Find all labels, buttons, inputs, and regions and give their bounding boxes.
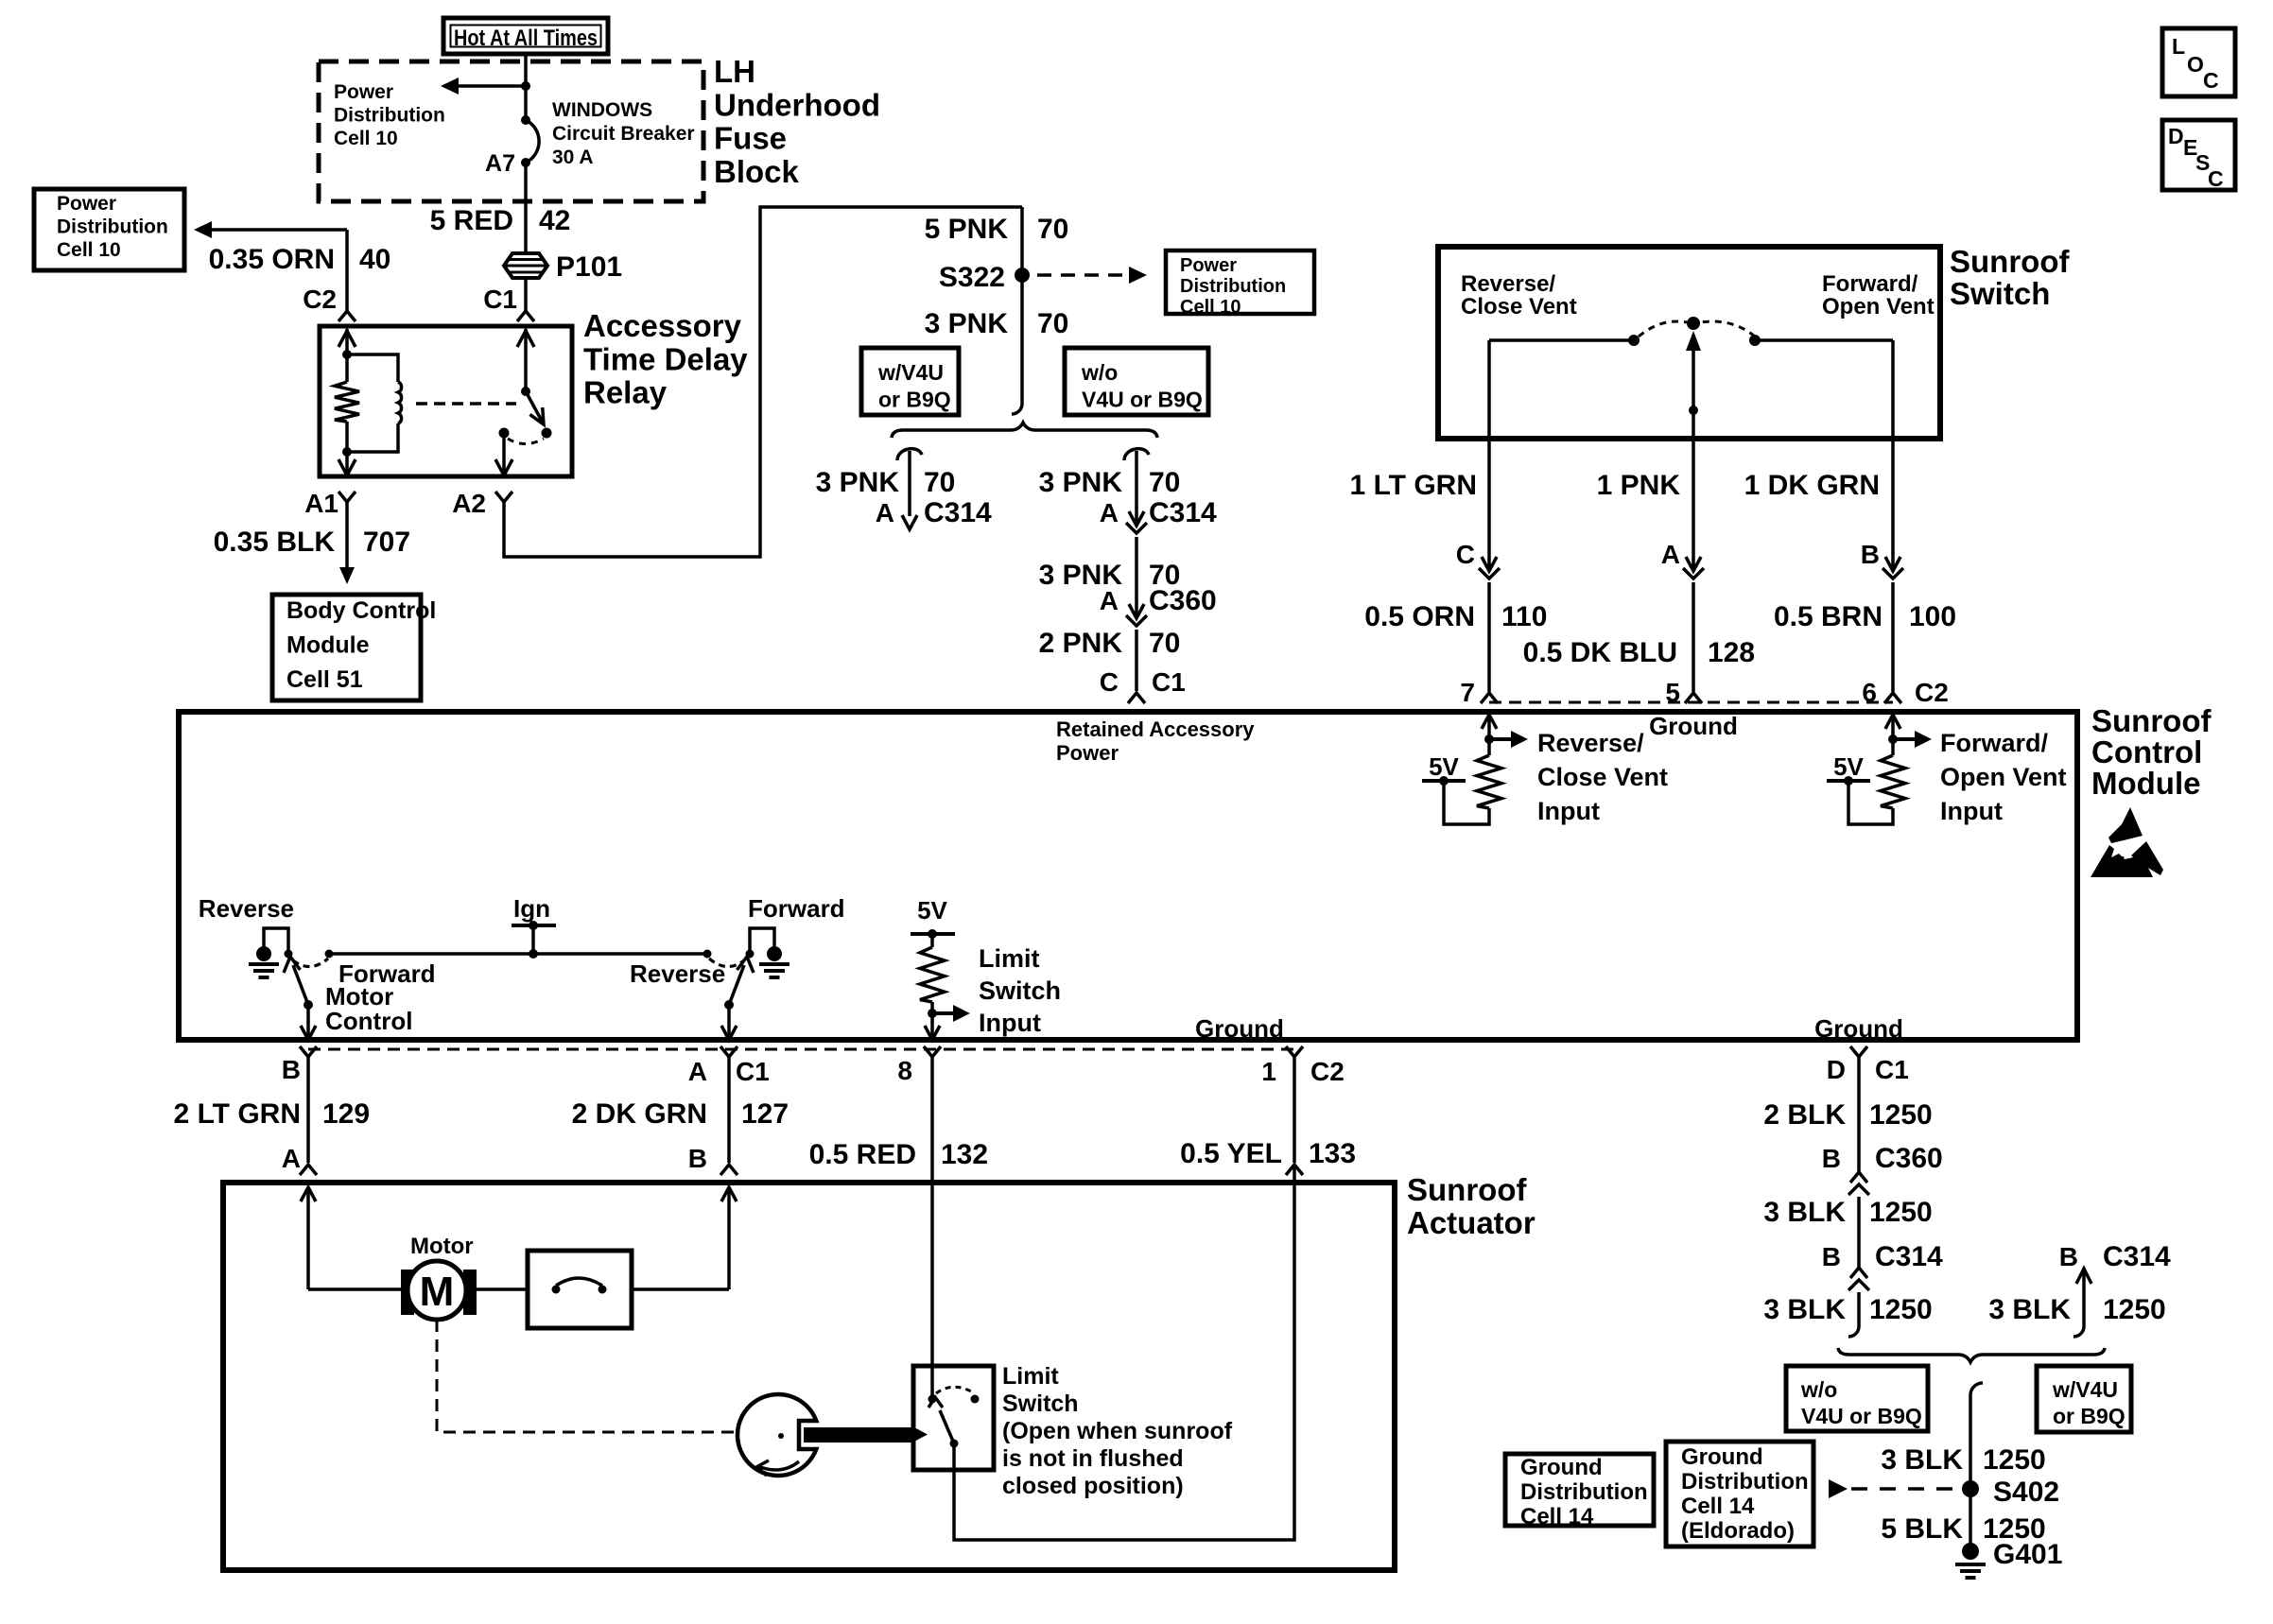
wire right motor control out: [727, 1005, 731, 1038]
right driver contact: [746, 950, 755, 959]
clutch contacts: [552, 1286, 561, 1294]
splice S402: [1962, 1480, 1979, 1497]
callout box Ground Distribution Cell 14: [1505, 1454, 1654, 1526]
LH Underhood Fuse Block (dashed outline): [319, 61, 703, 201]
dashed arrow to Power Distribution: [1037, 273, 1123, 277]
svg-text:70: 70: [924, 467, 955, 498]
left driver throw arc (dashed): [293, 959, 328, 967]
svg-text:(Eldorado): (Eldorado): [1681, 1518, 1795, 1544]
svg-text:C2: C2: [1310, 1057, 1345, 1086]
svg-text:Close Vent: Close Vent: [1537, 763, 1668, 791]
wire limit switch return: [954, 1165, 1294, 1540]
wire 3 PNK 70 branch (w/o): [1124, 449, 1149, 460]
svg-text:1 LT GRN: 1 LT GRN: [1350, 470, 1477, 501]
callout box w/V4U or B9Q (bottom): [2037, 1366, 2131, 1432]
left driver pivot: [304, 1000, 313, 1010]
node limit switch input: [930, 1002, 934, 1013]
wire 0.5 ORN 110: [1487, 582, 1491, 692]
svg-text:A: A: [1100, 498, 1119, 527]
switch left contact: [1628, 335, 1640, 346]
wire arrow to Power Distribution: [458, 84, 526, 88]
dashed mechanical link (motor to cam): [437, 1320, 734, 1432]
pin A2: [495, 492, 512, 502]
relay switch moving contact: [542, 428, 552, 439]
svg-text:Ground: Ground: [1520, 1455, 1603, 1480]
ground merge brace: [1838, 1348, 2105, 1362]
left driver contact: [285, 950, 293, 959]
svg-text:C1: C1: [736, 1057, 770, 1086]
svg-text:Relay: Relay: [583, 375, 668, 410]
svg-text:3 BLK: 3 BLK: [1881, 1444, 1963, 1476]
svg-text:2 LT GRN: 2 LT GRN: [174, 1098, 301, 1130]
svg-text:3 PNK: 3 PNK: [925, 308, 1009, 339]
svg-text:1250: 1250: [1869, 1294, 1933, 1325]
node coil bottom: [342, 447, 352, 457]
wire 2 PNK 70: [1135, 630, 1138, 691]
5V source (reverse input): [1422, 779, 1466, 783]
signal arrow Forward/Open Vent Input: [1893, 737, 1915, 741]
wire 2 LT GRN 129: [306, 1057, 310, 1163]
5V source (forward input): [1827, 779, 1870, 783]
component box Sunroof Control Module: [179, 712, 2077, 1040]
svg-text:w/V4U: w/V4U: [877, 360, 944, 385]
wire switch common to pin A: [1692, 410, 1695, 436]
svg-text:Distribution: Distribution: [334, 105, 445, 127]
svg-text:Ground: Ground: [1681, 1444, 1763, 1470]
svg-text:128: 128: [1708, 637, 1755, 668]
svg-text:5 RED: 5 RED: [430, 205, 513, 236]
resistor forward input pull-up: [1881, 755, 1905, 808]
svg-text:C2: C2: [303, 285, 337, 314]
wire merge to S402: [1970, 1383, 1983, 1394]
svg-text:or B9Q: or B9Q: [2053, 1404, 2126, 1428]
svg-text:Time Delay: Time Delay: [583, 341, 748, 376]
svg-text:Block: Block: [714, 154, 800, 189]
svg-text:1 DK GRN: 1 DK GRN: [1744, 470, 1880, 501]
svg-text:Retained Accessory: Retained Accessory: [1056, 717, 1255, 741]
svg-text:3 PNK: 3 PNK: [816, 467, 900, 498]
svg-text:is not in flushed: is not in flushed: [1002, 1445, 1184, 1472]
svg-text:V4U or B9Q: V4U or B9Q: [1082, 388, 1203, 412]
relay box Accessory Time Delay Relay: [320, 326, 572, 476]
svg-text:Motor: Motor: [410, 1234, 474, 1259]
svg-text:0.5 YEL: 0.5 YEL: [1180, 1138, 1282, 1169]
svg-text:Reverse: Reverse: [199, 894, 294, 923]
svg-text:Body Control: Body Control: [286, 597, 436, 624]
wire resistor to A1: [345, 422, 349, 452]
wire motor to clutch: [477, 1287, 528, 1291]
svg-text:Forward/: Forward/: [1822, 271, 1918, 297]
svg-text:w/o: w/o: [1081, 360, 1118, 385]
svg-text:C360: C360: [1875, 1143, 1943, 1174]
actuator A entry arrow: [301, 1187, 316, 1201]
wire P101 to relay C1: [524, 278, 528, 311]
left driver ground: [256, 946, 271, 961]
svg-text:Distribution: Distribution: [1681, 1469, 1809, 1494]
limit switch left contact: [928, 1395, 937, 1404]
relay resistor: [335, 382, 359, 422]
limit switch box: [913, 1366, 994, 1470]
svg-text:133: 133: [1309, 1138, 1356, 1169]
relay coil: [347, 354, 398, 382]
switch common arm arrow: [1692, 335, 1695, 410]
svg-text:0.5 DK BLU: 0.5 DK BLU: [1523, 637, 1677, 668]
svg-text:or B9Q: or B9Q: [878, 388, 951, 412]
svg-text:(Open when sunroof: (Open when sunroof: [1002, 1418, 1233, 1444]
svg-text:132: 132: [941, 1139, 988, 1170]
pin A / C1 (module): [720, 1046, 737, 1057]
relay switch arm: [526, 391, 544, 424]
wire breaker to P101: [524, 163, 528, 253]
pin 1 / C2 (module): [1286, 1046, 1303, 1057]
svg-text:Reverse/: Reverse/: [1461, 271, 1555, 297]
right driver throw arc (dashed): [709, 959, 744, 967]
svg-text:B: B: [282, 1055, 301, 1084]
svg-text:Sunroof: Sunroof: [1407, 1172, 1527, 1207]
svg-text:Ground: Ground: [1195, 1014, 1284, 1043]
svg-text:100: 100: [1909, 601, 1956, 632]
wire switch left contact: [1489, 338, 1634, 342]
pin (actuator limit return): [1286, 1165, 1303, 1175]
svg-text:A: A: [282, 1144, 301, 1173]
svg-text:30 A: 30 A: [552, 147, 594, 168]
svg-text:127: 127: [741, 1098, 789, 1130]
wire contact to A2: [502, 433, 506, 474]
svg-text:S322: S322: [939, 262, 1005, 293]
relay coil branch entry arrow: [338, 331, 356, 347]
wire 0.35 ORN 40: [194, 221, 212, 238]
svg-text:0.5 RED: 0.5 RED: [809, 1139, 916, 1170]
right driver pivot: [724, 1000, 734, 1010]
svg-text:0.35 ORN: 0.35 ORN: [209, 244, 335, 275]
svg-text:Ground: Ground: [1649, 712, 1738, 740]
harness dashed line (module bottom): [308, 1048, 1294, 1051]
svg-text:A7: A7: [485, 150, 515, 177]
svg-text:Switch: Switch: [1002, 1391, 1079, 1417]
pin A1: [338, 492, 356, 502]
svg-text:Cell 10: Cell 10: [57, 239, 121, 261]
wire 0.5 YEL 133: [1293, 1057, 1296, 1163]
svg-text:Power: Power: [1056, 741, 1119, 765]
wire 3 PNK 70 to C360: [1135, 537, 1138, 615]
wire 5 BLK 1250: [1969, 1489, 1972, 1551]
svg-text:0.5 BRN: 0.5 BRN: [1774, 601, 1883, 632]
wire driver common rail: [329, 952, 707, 956]
wire Hot At All Times to junction: [524, 54, 528, 86]
pin D / C1 (module): [1850, 1046, 1867, 1057]
svg-text:Open Vent: Open Vent: [1822, 294, 1935, 320]
svg-text:Switch: Switch: [979, 976, 1061, 1005]
svg-text:Distribution: Distribution: [1520, 1479, 1648, 1505]
svg-text:D: D: [2168, 124, 2184, 148]
svg-text:C314: C314: [2103, 1241, 2171, 1272]
switch throw arc left (dashed): [1639, 321, 1687, 337]
callout box Power Distribution Cell 10 (left): [34, 189, 184, 270]
relay switch pivot: [521, 387, 530, 396]
svg-text:40: 40: [359, 244, 390, 275]
svg-text:Forward/: Forward/: [1940, 729, 2049, 757]
limit switch right contact: [971, 1395, 980, 1404]
svg-text:70: 70: [1149, 467, 1180, 498]
wire left motor control out: [306, 1005, 310, 1038]
svg-text:B: B: [1822, 1144, 1841, 1173]
svg-text:3 BLK: 3 BLK: [1763, 1197, 1846, 1228]
relay switch stationary contact: [499, 428, 510, 439]
svg-text:3 BLK: 3 BLK: [1988, 1294, 2071, 1325]
pin 8 (module): [924, 1046, 941, 1057]
svg-text:D: D: [1827, 1055, 1846, 1084]
svg-text:C1: C1: [483, 285, 517, 314]
svg-text:Hot At All Times: Hot At All Times: [454, 26, 598, 51]
svg-text:707: 707: [363, 527, 410, 558]
svg-text:O: O: [2187, 52, 2204, 77]
cam disc: [737, 1394, 816, 1476]
svg-text:42: 42: [539, 205, 570, 236]
harness split brace: [892, 423, 1157, 438]
svg-text:8: 8: [897, 1056, 912, 1085]
svg-text:Switch: Switch: [1950, 276, 2050, 311]
svg-text:70: 70: [1037, 308, 1068, 339]
right driver ground hook: [750, 928, 774, 954]
svg-text:Power: Power: [57, 193, 116, 215]
svg-text:Input: Input: [1537, 797, 1600, 825]
svg-text:Module: Module: [286, 632, 370, 659]
svg-text:Open Vent: Open Vent: [1940, 763, 2067, 791]
svg-text:WINDOWS: WINDOWS: [552, 99, 652, 121]
svg-text:C1: C1: [1152, 667, 1186, 697]
svg-text:w/V4U: w/V4U: [2052, 1377, 2118, 1402]
svg-text:5 BLK: 5 BLK: [1881, 1513, 1963, 1545]
svg-text:5V: 5V: [917, 896, 947, 924]
svg-text:C314: C314: [924, 497, 992, 528]
svg-text:1: 1: [1261, 1057, 1276, 1086]
left driver arm: [293, 965, 308, 1005]
svg-text:V4U or B9Q: V4U or B9Q: [1801, 1404, 1922, 1428]
svg-text:C: C: [1456, 540, 1475, 569]
svg-text:3 PNK: 3 PNK: [1039, 467, 1123, 498]
wire 0.35 BLK 707: [345, 502, 349, 567]
wire 3 PNK 70 branch (w/V4U): [897, 449, 922, 460]
svg-text:Control: Control: [2091, 734, 2202, 769]
right driver ground: [767, 946, 782, 961]
svg-text:Circuit Breaker: Circuit Breaker: [552, 123, 695, 145]
svg-text:1250: 1250: [1983, 1444, 2046, 1476]
svg-text:1 PNK: 1 PNK: [1597, 470, 1681, 501]
wire 0.5 DK BLU 128: [1692, 582, 1695, 692]
svg-text:B: B: [1822, 1242, 1841, 1271]
svg-text:C314: C314: [1149, 497, 1217, 528]
wire switch right contact: [1755, 338, 1893, 342]
limit switch arm: [940, 1410, 954, 1443]
svg-text:Power: Power: [1180, 255, 1237, 276]
svg-text:Cell 51: Cell 51: [286, 666, 363, 693]
callout box w/o V4U or B9Q (bottom): [1786, 1366, 1928, 1431]
svg-text:LH: LH: [714, 54, 755, 89]
callout box LOC: [2162, 28, 2235, 96]
signal arrow Reverse/Close Vent Input: [1489, 737, 1511, 741]
wire 1 DK GRN / pin B: [1891, 436, 1895, 568]
svg-text:C: C: [2208, 166, 2224, 191]
svg-text:Actuator: Actuator: [1407, 1205, 1536, 1240]
svg-text:C2: C2: [1915, 678, 1949, 707]
wire 3 BLK 1250 (lower left): [1857, 1292, 1861, 1327]
svg-text:Limit: Limit: [979, 944, 1040, 973]
splice S322: [1015, 268, 1030, 283]
callout box w/V4U or B9Q (top): [861, 348, 959, 415]
node reverse input: [1484, 734, 1494, 744]
svg-text:0.5 ORN: 0.5 ORN: [1364, 601, 1475, 632]
svg-text:3 BLK: 3 BLK: [1763, 1294, 1846, 1325]
clutch box: [528, 1251, 632, 1328]
svg-text:B: B: [1861, 540, 1880, 569]
relay contact branch entry arrow: [517, 331, 534, 347]
ESD sensitive symbol: [2108, 807, 2143, 843]
wire motor left: [308, 1287, 401, 1291]
dashed arrow Eldorado to S402: [1829, 1479, 1848, 1498]
svg-text:Ground: Ground: [1814, 1014, 1903, 1043]
ground G401: [1962, 1543, 1979, 1560]
right driver arm: [729, 965, 744, 1005]
arrow into Body Control Module: [339, 567, 355, 584]
wire 1 PNK / pin A: [1692, 436, 1695, 568]
wire 0.5 RED into limit switch: [930, 1366, 934, 1395]
svg-text:A2: A2: [452, 489, 486, 518]
svg-text:Forward: Forward: [748, 894, 845, 923]
wire 2 BLK 1250: [1857, 1057, 1861, 1172]
svg-text:Cell 10: Cell 10: [1180, 297, 1241, 318]
svg-text:2 DK GRN: 2 DK GRN: [572, 1098, 707, 1130]
module reverse input arrow: [1482, 715, 1497, 729]
relay switch throw arc (dashed): [508, 439, 544, 444]
callout box DESC: [2162, 120, 2235, 190]
svg-text:Input: Input: [979, 1009, 1041, 1037]
svg-text:Sunroof: Sunroof: [1950, 244, 2070, 279]
svg-text:Reverse/: Reverse/: [1537, 729, 1644, 757]
callout box Power Distribution Cell 10 (S322): [1166, 251, 1314, 314]
svg-text:B: B: [2059, 1242, 2078, 1271]
left driver ground hook: [264, 928, 288, 954]
svg-text:1250: 1250: [1869, 1099, 1933, 1131]
svg-text:L: L: [2172, 34, 2185, 59]
connector P101: [504, 253, 547, 278]
pin B (module): [300, 1046, 317, 1057]
svg-text:2 PNK: 2 PNK: [1039, 628, 1123, 659]
node coil top: [342, 350, 352, 359]
svg-text:A: A: [1100, 586, 1119, 615]
power feed box Hot At All Times: [443, 18, 608, 54]
svg-text:Power: Power: [334, 81, 393, 103]
svg-text:w/o: w/o: [1800, 1377, 1837, 1402]
svg-text:Sunroof: Sunroof: [2091, 703, 2212, 738]
switch throw arc right (dashed): [1700, 321, 1755, 337]
svg-text:Limit: Limit: [1002, 1363, 1059, 1390]
svg-text:Cell 14: Cell 14: [1681, 1494, 1755, 1519]
svg-text:A: A: [876, 498, 894, 527]
wire 3 BLK 1250 (upper): [1857, 1197, 1861, 1268]
svg-text:Module: Module: [2091, 766, 2200, 801]
wire A2 to retained accessory feed: [504, 207, 1022, 557]
svg-text:M: M: [420, 1269, 455, 1315]
svg-text:P101: P101: [556, 251, 622, 283]
svg-text:B: B: [688, 1144, 707, 1173]
svg-text:70: 70: [1149, 628, 1180, 659]
svg-text:S402: S402: [1993, 1477, 2059, 1508]
node forward input: [1888, 734, 1898, 744]
svg-text:70: 70: [1037, 214, 1068, 245]
callout box Body Control Module Cell 51: [272, 595, 421, 700]
svg-text:Ign: Ign: [513, 894, 550, 923]
svg-text:closed position): closed position): [1002, 1473, 1184, 1499]
signal arrow Limit Switch Input: [932, 1011, 953, 1015]
actuator B entry arrow: [721, 1187, 737, 1201]
svg-text:1250: 1250: [2103, 1294, 2166, 1325]
svg-text:2 BLK: 2 BLK: [1763, 1099, 1846, 1131]
limit switch throw arc (dashed): [936, 1387, 973, 1393]
wire 2 DK GRN 127: [727, 1057, 731, 1163]
svg-text:Cell 10: Cell 10: [334, 128, 398, 149]
limit switch pivot: [950, 1440, 959, 1448]
wire 3 BLK 1250 (lower right): [2082, 1269, 2086, 1327]
svg-text:Fuse: Fuse: [714, 121, 787, 156]
svg-text:C314: C314: [1875, 1241, 1943, 1272]
svg-text:Control: Control: [325, 1007, 412, 1035]
svg-text:0.35 BLK: 0.35 BLK: [214, 527, 336, 558]
svg-text:Distribution: Distribution: [1180, 276, 1286, 297]
svg-text:C360: C360: [1149, 585, 1217, 616]
svg-text:A: A: [688, 1057, 707, 1086]
node junction at fuse feed: [521, 81, 530, 91]
circuit breaker WINDOWS 30A: [524, 86, 528, 120]
switch right contact: [1749, 335, 1761, 346]
relay actuation dashed link: [416, 402, 516, 406]
svg-text:C: C: [1100, 667, 1119, 697]
motor M: [401, 1270, 414, 1315]
svg-text:C1: C1: [1875, 1055, 1909, 1084]
wire 5 PNK 70: [1020, 207, 1024, 405]
svg-text:129: 129: [322, 1098, 370, 1130]
svg-text:Reverse: Reverse: [630, 959, 725, 988]
switch common node: [1687, 317, 1700, 330]
svg-text:G401: G401: [1993, 1539, 2062, 1570]
svg-text:7: 7: [1460, 678, 1475, 707]
svg-text:A: A: [1661, 540, 1680, 569]
svg-text:C: C: [2203, 68, 2219, 93]
callout box Ground Distribution Cell 14 (Eldorado): [1666, 1442, 1813, 1546]
wire 0.5 RED 132: [930, 1057, 934, 1366]
callout box w/o V4U or B9Q (top): [1065, 348, 1208, 415]
svg-text:Input: Input: [1940, 797, 2003, 825]
module forward input arrow: [1885, 715, 1900, 729]
cam follower bar: [804, 1427, 913, 1443]
component box Sunroof Actuator: [223, 1183, 1395, 1570]
svg-text:A1: A1: [304, 489, 338, 518]
resistor limit switch pull-up: [930, 934, 934, 947]
component box Sunroof Switch: [1438, 247, 1940, 439]
svg-text:Accessory: Accessory: [583, 308, 742, 343]
svg-text:Underhood: Underhood: [714, 87, 880, 122]
wire 0.5 BRN 100: [1891, 582, 1895, 692]
svg-text:5V: 5V: [1429, 752, 1459, 781]
svg-text:Close Vent: Close Vent: [1461, 294, 1577, 320]
svg-text:Cell 14: Cell 14: [1520, 1504, 1594, 1529]
svg-text:5V: 5V: [1833, 752, 1864, 781]
switch common lower node: [1689, 406, 1698, 415]
svg-text:Distribution: Distribution: [57, 216, 168, 238]
resistor reverse input pull-up: [1477, 755, 1501, 808]
wire clutch to B riser: [632, 1287, 729, 1291]
svg-text:5 PNK: 5 PNK: [925, 214, 1009, 245]
svg-text:110: 110: [1501, 601, 1547, 632]
